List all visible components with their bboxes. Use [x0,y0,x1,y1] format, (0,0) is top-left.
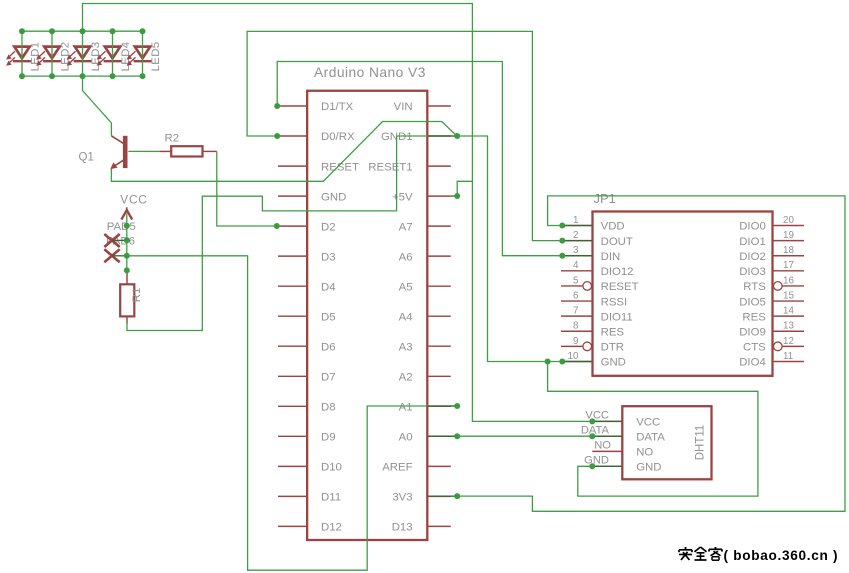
svg-text:A6: A6 [399,251,413,263]
svg-text:7: 7 [573,306,578,317]
svg-text:9: 9 [573,336,578,347]
svg-text:15: 15 [783,290,794,301]
svg-text:D10: D10 [321,462,342,474]
svg-text:A3: A3 [399,341,413,353]
svg-text:VCC: VCC [585,410,609,422]
svg-text:11: 11 [783,351,793,362]
svg-text:D2: D2 [321,221,336,233]
svg-text:Arduino Nano V3: Arduino Nano V3 [314,65,426,80]
svg-text:DIO11: DIO11 [601,311,633,323]
svg-text:+5V: +5V [392,191,413,203]
svg-text:D12: D12 [321,522,342,534]
svg-text:RESET1: RESET1 [368,161,412,173]
svg-text:A0: A0 [399,432,413,444]
svg-text:VDD: VDD [601,221,625,233]
svg-text:R1: R1 [131,288,143,303]
svg-text:PAD5: PAD5 [107,221,136,233]
svg-text:D5: D5 [321,311,336,323]
svg-text:12: 12 [783,336,794,347]
svg-text:1: 1 [573,215,578,226]
svg-text:NO: NO [594,440,611,452]
svg-text:( bobao.360.cn ): ( bobao.360.cn ) [724,548,839,563]
svg-text:D11: D11 [321,492,341,504]
svg-text:DIO1: DIO1 [739,236,766,248]
svg-text:3: 3 [573,245,579,256]
svg-text:14: 14 [783,306,794,317]
svg-text:AREF: AREF [382,462,412,474]
svg-text:4: 4 [573,260,579,271]
svg-text:18: 18 [783,245,794,256]
svg-text:17: 17 [783,260,794,271]
svg-text:DHT11: DHT11 [695,425,707,461]
svg-text:GND: GND [601,357,626,369]
svg-text:A5: A5 [399,281,413,293]
svg-text:D13: D13 [392,522,413,534]
svg-text:5: 5 [573,275,579,286]
svg-text:RESET: RESET [321,161,359,173]
svg-text:D9: D9 [321,432,336,444]
svg-text:DATA: DATA [636,431,665,443]
svg-text:Q1: Q1 [79,152,94,164]
svg-text:D3: D3 [321,251,336,263]
svg-text:3V3: 3V3 [392,492,412,504]
svg-text:10: 10 [568,351,579,362]
svg-text:RTS: RTS [743,281,766,293]
svg-text:VIN: VIN [394,101,413,113]
svg-text:VCC: VCC [120,192,147,206]
svg-text:CTS: CTS [743,342,766,354]
svg-text:DIO12: DIO12 [601,266,634,278]
svg-text:A1: A1 [399,402,413,414]
svg-text:GND: GND [584,455,609,467]
svg-text:RES: RES [601,326,625,338]
svg-text:D6: D6 [321,341,336,353]
svg-text:DIN: DIN [601,251,621,263]
svg-text:GND: GND [636,462,661,474]
svg-text:A2: A2 [399,371,413,383]
svg-text:DTR: DTR [601,342,624,354]
svg-text:VCC: VCC [636,417,660,429]
svg-text:19: 19 [783,230,794,241]
svg-text:A4: A4 [399,311,413,323]
svg-text:DIO5: DIO5 [739,296,766,308]
svg-text:GND: GND [321,191,346,203]
svg-text:NO: NO [636,447,653,459]
svg-text:RES: RES [742,311,766,323]
svg-text:20: 20 [783,215,794,226]
svg-text:D7: D7 [321,371,336,383]
svg-text:16: 16 [783,275,794,286]
svg-text:A7: A7 [399,221,413,233]
svg-text:LED5: LED5 [150,42,162,72]
svg-text:RESET: RESET [601,281,639,293]
svg-text:DIO2: DIO2 [739,251,766,263]
svg-text:DATA: DATA [581,424,610,436]
svg-text:JP1: JP1 [594,191,616,206]
svg-text:D4: D4 [321,281,336,293]
svg-text:8: 8 [573,321,579,332]
svg-text:DIO3: DIO3 [739,266,766,278]
svg-text:R2: R2 [165,132,180,144]
svg-text:DOUT: DOUT [601,236,633,248]
svg-text:D0/RX: D0/RX [321,131,355,143]
svg-text:DIO9: DIO9 [739,326,766,338]
svg-text:DIO0: DIO0 [739,221,766,233]
svg-text:13: 13 [783,321,794,332]
svg-text:DIO4: DIO4 [739,357,766,369]
svg-text:6: 6 [573,290,579,301]
svg-text:D1/TX: D1/TX [321,101,354,113]
svg-text:D8: D8 [321,402,336,414]
svg-text:RSSI: RSSI [601,296,628,308]
svg-text:2: 2 [573,230,578,241]
